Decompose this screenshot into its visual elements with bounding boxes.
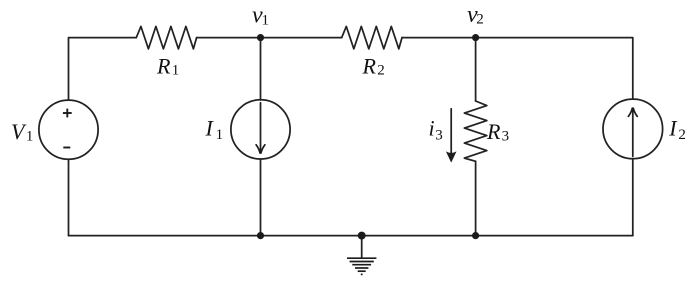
current source I2 bbox=[603, 99, 663, 159]
wire I2 bottom to bottom rail bbox=[632, 159, 634, 236]
svg-text:1: 1 bbox=[262, 12, 270, 28]
I2 arrow shaft bbox=[632, 112, 634, 157]
svg-text:1: 1 bbox=[172, 62, 180, 78]
wire R1 to R2 through node v1 bbox=[197, 37, 342, 39]
svg-text:3: 3 bbox=[502, 129, 510, 145]
node v1 dot bbox=[257, 34, 264, 41]
ground bar 6 bbox=[361, 273, 363, 275]
label I1 bbox=[205, 115, 224, 143]
I1 arrow shaft bbox=[260, 103, 262, 150]
wire R2 to top-right corner, down to I2 bbox=[402, 38, 633, 99]
wire V1 bottom to bottom rail bbox=[68, 160, 70, 236]
svg-text:V: V bbox=[11, 119, 27, 144]
svg-text:2: 2 bbox=[678, 127, 686, 143]
wire v2 down to R3 bbox=[475, 38, 477, 101]
label v2 bbox=[467, 2, 484, 28]
label R1 bbox=[156, 54, 179, 79]
wire bottom rail bbox=[69, 235, 633, 237]
current source I1 bbox=[231, 100, 290, 159]
svg-text:R: R bbox=[156, 54, 171, 79]
label i3 bbox=[429, 116, 443, 144]
i3 arrow shaft bbox=[450, 109, 452, 155]
svg-text:i: i bbox=[429, 116, 435, 141]
junction dot ground bbox=[358, 232, 366, 240]
ground bar 1 bbox=[347, 257, 376, 259]
label R2 bbox=[362, 54, 385, 79]
ground stem bbox=[361, 236, 363, 258]
wire R3 bottom to bottom rail bbox=[475, 161, 477, 235]
label I2 bbox=[668, 115, 686, 143]
svg-text:3: 3 bbox=[435, 128, 443, 144]
label v1 bbox=[252, 3, 269, 29]
junction dot R3-bottom bbox=[472, 232, 479, 239]
ground bar 3 bbox=[352, 264, 371, 266]
svg-text:R: R bbox=[486, 119, 501, 144]
ground bar 4 bbox=[355, 267, 368, 269]
I1 arrowhead (down) bbox=[256, 145, 265, 153]
resistor R1 bbox=[136, 26, 196, 49]
svg-text:R: R bbox=[362, 54, 377, 79]
ground bar 2 bbox=[350, 261, 374, 263]
I2 arrowhead (up) bbox=[628, 108, 637, 116]
svg-text:1: 1 bbox=[26, 129, 34, 145]
resistor R2 bbox=[342, 26, 402, 49]
voltage source V1 bbox=[39, 100, 98, 159]
svg-text:2: 2 bbox=[377, 62, 385, 78]
wire I1 bottom to bottom rail bbox=[260, 159, 262, 236]
i3 arrowhead (down) bbox=[446, 151, 457, 162]
minus sign inside V1 bbox=[63, 147, 70, 149]
svg-text:I: I bbox=[205, 115, 215, 140]
resistor R3 bbox=[464, 101, 486, 161]
wire v1 down to I1 bbox=[260, 38, 262, 100]
label V1 (source name) bbox=[11, 119, 33, 145]
svg-text:I: I bbox=[668, 115, 678, 140]
label R3 bbox=[486, 119, 509, 145]
svg-text:2: 2 bbox=[476, 12, 484, 28]
node v2 dot bbox=[472, 34, 479, 41]
junction dot I1-bottom bbox=[257, 232, 264, 239]
plus sign inside V1 bbox=[63, 109, 72, 148]
svg-text:1: 1 bbox=[216, 127, 224, 143]
wire top-left: V1 top to R1 bbox=[69, 38, 137, 100]
ground bar 5 bbox=[358, 270, 366, 272]
